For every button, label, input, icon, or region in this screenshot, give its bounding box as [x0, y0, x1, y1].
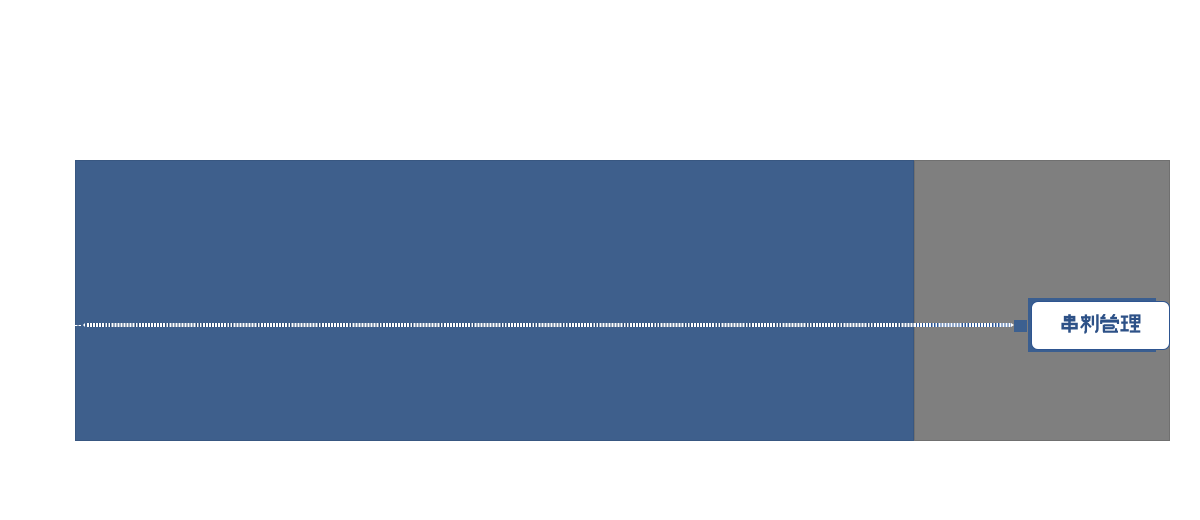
blue slide rectangle	[75, 160, 914, 441]
dashed connector left arrowhead	[83, 323, 85, 327]
label white rounded box	[1031, 301, 1170, 351]
glyph 刺	[1081, 314, 1098, 332]
connector end square	[1014, 320, 1027, 332]
dashed connector right arrowhead	[1011, 323, 1014, 327]
dashed connector thin tail	[75, 325, 82, 327]
glyph 管	[1100, 314, 1119, 332]
dotted connector line (over gray area)	[914, 323, 1011, 327]
label text 串刺管理 drawn as SVG strokes	[1060, 314, 1142, 334]
glyph 理	[1120, 315, 1140, 331]
dotted connector line (over blue area)	[87, 323, 914, 327]
label backing rectangle	[1028, 298, 1156, 352]
glyph 串	[1063, 314, 1077, 333]
gray panel rectangle	[914, 160, 1170, 441]
